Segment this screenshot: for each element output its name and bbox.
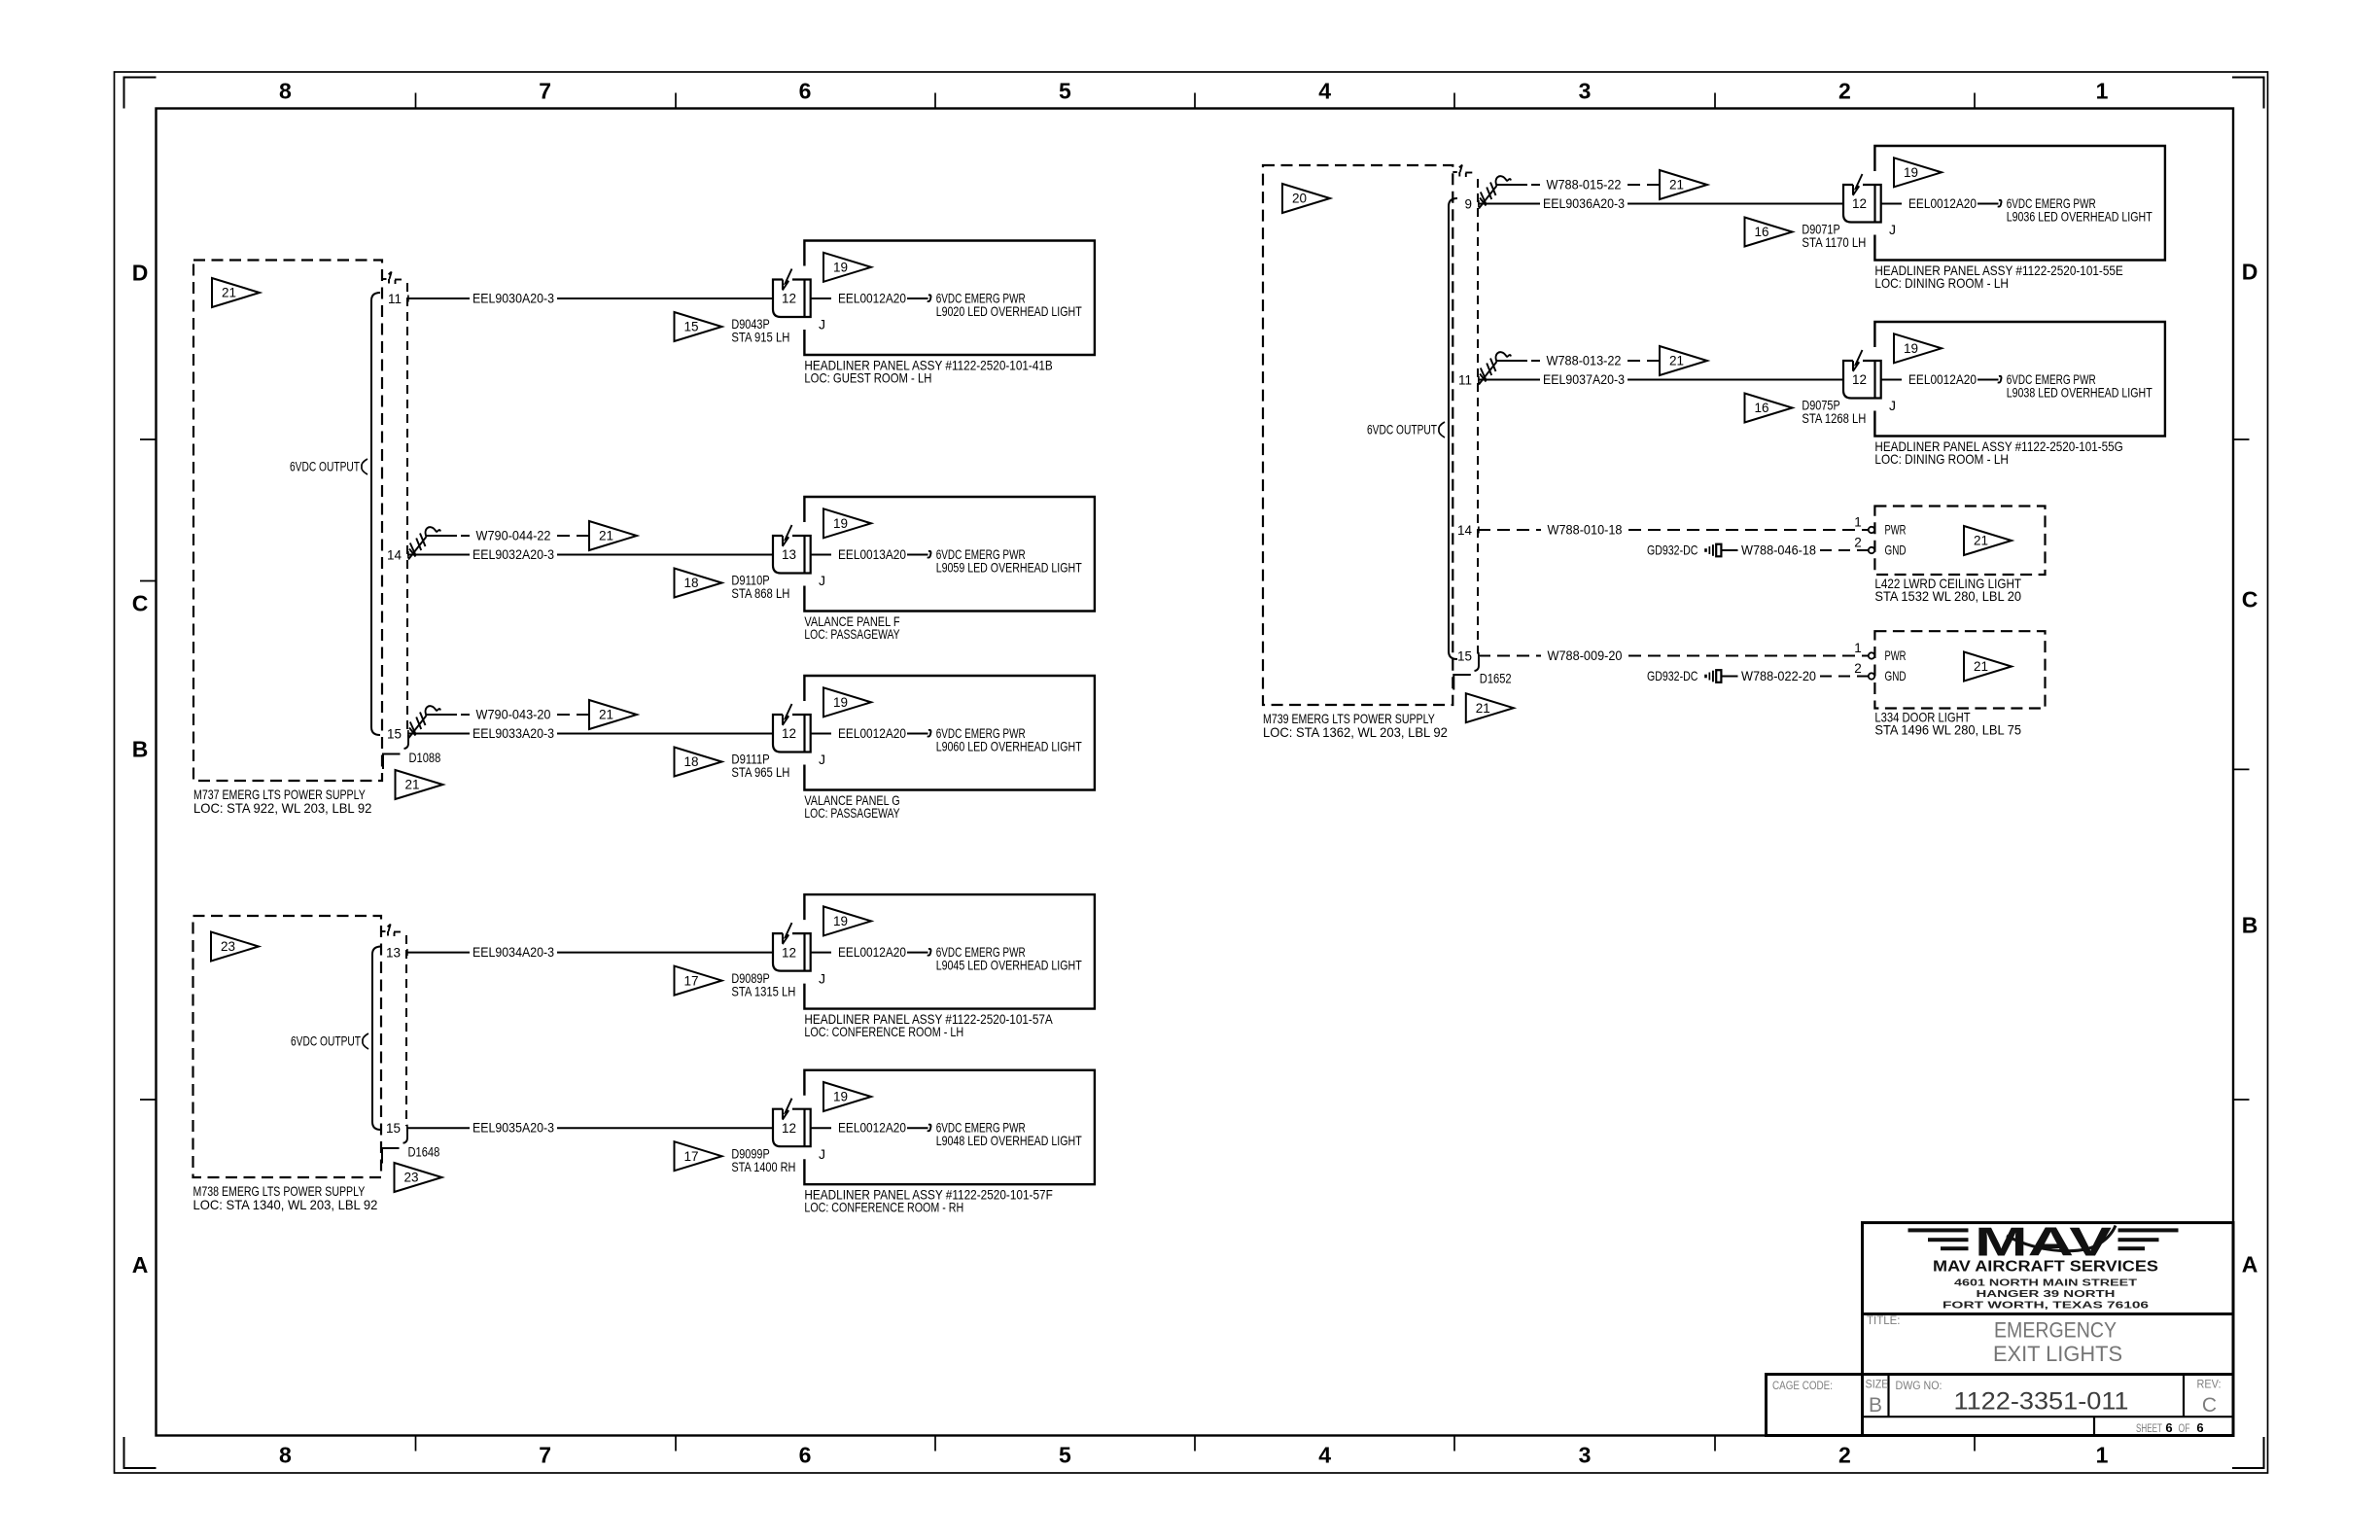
in-panel wire EEL0012A20 — [1881, 371, 1999, 387]
svg-text:L9045 LED OVERHEAD LIGHT: L9045 LED OVERHEAD LIGHT — [936, 957, 1082, 972]
svg-text:J: J — [1889, 222, 1896, 237]
svg-text:5: 5 — [1059, 1443, 1071, 1468]
svg-text:D: D — [2242, 259, 2258, 284]
svg-text:7: 7 — [539, 79, 551, 104]
MAV logo speed lines left — [1908, 1228, 1969, 1250]
flag 19 in panel VALANCE PANEL G — [823, 687, 871, 717]
wire W788-010-18 (dashed) — [1478, 521, 1869, 537]
connector bottom corner of M738 — [382, 1148, 400, 1164]
svg-text:8: 8 — [279, 1443, 292, 1468]
svg-text:PWR: PWR — [1885, 647, 1907, 663]
title block outline — [1863, 1223, 2234, 1436]
svg-text:J: J — [819, 970, 825, 986]
flag 21 on W788-013-22 — [1660, 346, 1707, 375]
pin 1 PWR of L422 lowered ceiling light — [1854, 515, 1906, 538]
zone tick bottom 7 — [1974, 1436, 1976, 1452]
svg-text:18: 18 — [683, 754, 698, 769]
svg-text:A: A — [132, 1252, 149, 1277]
svg-text:W788-009-20: W788-009-20 — [1548, 647, 1623, 663]
wire EEL9032A20-3 — [407, 546, 773, 562]
pin 14 of M739 — [1457, 523, 1479, 538]
panel box VALANCE PANEL G — [804, 676, 1095, 790]
svg-text:EEL9033A20-3: EEL9033A20-3 — [472, 725, 554, 741]
zone tick left 3 — [140, 1099, 157, 1101]
flag 18 at D9110P — [675, 569, 722, 598]
svg-text:8: 8 — [279, 79, 292, 104]
svg-text:LOC: CONFERENCE ROOM - LH: LOC: CONFERENCE ROOM - LH — [804, 1024, 963, 1039]
flag 21 below M739 — [1466, 693, 1514, 722]
svg-text:W788-015-22: W788-015-22 — [1547, 176, 1622, 192]
corner trim tick top-right — [2232, 78, 2264, 109]
svg-text:17: 17 — [683, 1149, 698, 1164]
panel box HEADLINER PANEL ASSY #1122-2520-101-57F — [804, 1070, 1095, 1185]
flag 18 at D9111P — [675, 748, 722, 777]
zone tick top 6 — [1714, 93, 1716, 109]
svg-text:4601 NORTH MAIN STREET: 4601 NORTH MAIN STREET — [1954, 1277, 2138, 1288]
svg-text:19: 19 — [833, 695, 848, 710]
svg-text:9: 9 — [1464, 197, 1472, 212]
connector boundary dashed line of M737 — [406, 283, 408, 732]
pin 14 of M737 — [387, 548, 408, 563]
svg-text:1: 1 — [2096, 1443, 2109, 1468]
svg-text:15: 15 — [387, 727, 402, 742]
svg-text:EEL9032A20-3: EEL9032A20-3 — [472, 546, 554, 562]
connector boundary dashed line of M738 — [405, 935, 407, 1126]
in-panel wire EEL0013A20 — [811, 546, 928, 562]
svg-text:LOC: GUEST ROOM - LH: LOC: GUEST ROOM - LH — [804, 370, 931, 386]
svg-text:L9048 LED OVERHEAD LIGHT: L9048 LED OVERHEAD LIGHT — [936, 1133, 1082, 1148]
svg-text:B: B — [132, 736, 149, 761]
MAV logo swoosh — [2007, 1226, 2116, 1251]
svg-text:LOC: CONFERENCE ROOM - RH: LOC: CONFERENCE ROOM - RH — [804, 1200, 963, 1215]
pin 9 of M739 — [1464, 197, 1478, 212]
shield wire W790-043-20 (dashed) — [427, 706, 590, 721]
svg-text:STA 1315 LH: STA 1315 LH — [731, 983, 795, 998]
flag 17 at D9099P — [675, 1141, 722, 1171]
shield wire W790-044-22 (dashed) — [427, 527, 590, 542]
pin 11 of M739 — [1458, 373, 1479, 388]
svg-text:LOC: STA 1340, WL 203, LBL 92: LOC: STA 1340, WL 203, LBL 92 — [193, 1197, 378, 1212]
output bracket of M737 — [371, 293, 380, 735]
wire W788-009-20 (dashed) — [1478, 647, 1869, 663]
svg-text:OF: OF — [2179, 1423, 2190, 1435]
wire EEL9037A20-3 — [1478, 371, 1843, 387]
svg-text:12: 12 — [782, 1121, 796, 1136]
svg-text:4: 4 — [1318, 79, 1331, 104]
svg-text:21: 21 — [1974, 534, 1988, 548]
connector boundary end hook of M737 — [404, 735, 409, 749]
connector boundary end hook of M739 — [1475, 657, 1480, 671]
flag 21 on W790-043-20 — [589, 700, 637, 729]
svg-text:W788-046-18: W788-046-18 — [1741, 542, 1816, 557]
pin 15 of M738 — [386, 1121, 407, 1136]
svg-text:18: 18 — [683, 576, 698, 590]
pin 15 of M739 — [1457, 649, 1479, 664]
svg-text:C: C — [132, 590, 149, 615]
svg-text:LOC: PASSAGEWAY: LOC: PASSAGEWAY — [804, 626, 900, 642]
svg-text:7: 7 — [539, 1443, 551, 1468]
svg-text:EEL9037A20-3: EEL9037A20-3 — [1543, 371, 1625, 387]
connector D9099P pin 12 — [773, 1099, 811, 1147]
svg-text:STA 1170 LH: STA 1170 LH — [1802, 234, 1866, 250]
in-panel wire EEL0012A20 — [811, 290, 928, 305]
connector boundary end hook of M738 — [403, 1130, 408, 1143]
svg-text:21: 21 — [1669, 354, 1684, 368]
power supply M737 dashed enclosure — [193, 261, 382, 782]
connector bottom corner of M739 — [1453, 675, 1471, 690]
svg-text:13: 13 — [386, 946, 401, 961]
wire EEL9033A20-3 — [407, 725, 773, 741]
svg-text:15: 15 — [386, 1121, 401, 1136]
svg-text:EEL0013A20: EEL0013A20 — [838, 546, 906, 562]
svg-text:MAV: MAV — [1975, 1219, 2112, 1265]
connector bottom corner of M737 — [383, 754, 401, 770]
svg-text:FORT WORTH, TEXAS 76106: FORT WORTH, TEXAS 76106 — [1942, 1300, 2149, 1312]
connector D9110P pin 13 — [773, 525, 811, 574]
zone tick left 2 — [140, 580, 157, 582]
connector D9043P pin 12 — [773, 269, 811, 318]
svg-text:1: 1 — [2096, 79, 2109, 104]
zone tick left 1 — [140, 438, 157, 440]
svg-text:SHEET: SHEET — [2136, 1423, 2162, 1435]
svg-text:6: 6 — [799, 1443, 812, 1468]
svg-text:14: 14 — [1457, 523, 1473, 538]
svg-text:21: 21 — [599, 708, 613, 722]
svg-text:EEL0012A20: EEL0012A20 — [838, 944, 906, 960]
wire EEL9034A20-3 — [406, 944, 773, 960]
L422 lowered ceiling light dashed enclosure — [1874, 507, 2045, 576]
cage code box — [1767, 1375, 1863, 1436]
output bracket of M739 — [1449, 198, 1457, 659]
svg-text:L9060 LED OVERHEAD LIGHT: L9060 LED OVERHEAD LIGHT — [936, 738, 1082, 753]
wire W788-022-20 — [1722, 668, 1869, 683]
svg-text:PWR: PWR — [1885, 521, 1907, 537]
svg-text:C: C — [2202, 1394, 2217, 1417]
panel box HEADLINER PANEL ASSY #1122-2520-101-41B — [804, 241, 1095, 356]
svg-text:15: 15 — [1457, 649, 1472, 664]
svg-text:12: 12 — [782, 945, 796, 960]
connector boundary dashed line of M739 — [1477, 179, 1479, 654]
flag 21 on W790-044-22 — [589, 521, 637, 550]
corner trim tick bottom-right — [2232, 1437, 2264, 1468]
svg-text:21: 21 — [1476, 701, 1490, 716]
twisted shield symbol at EEL9036A20-3 — [1479, 176, 1511, 208]
zone tick top 7 — [1974, 93, 1976, 109]
wire hook at EEL0013A20 — [927, 551, 931, 558]
zone tick bottom 1 — [415, 1436, 417, 1452]
wire EEL9030A20-3 — [407, 290, 773, 305]
svg-text:19: 19 — [1904, 165, 1918, 180]
svg-text:3: 3 — [1579, 79, 1592, 104]
pin 1 PWR of L334 door light — [1854, 641, 1906, 663]
svg-text:16: 16 — [1754, 401, 1768, 415]
svg-text:STA 1268 LH: STA 1268 LH — [1802, 410, 1866, 426]
svg-text:STA 1400 RH: STA 1400 RH — [731, 1159, 795, 1174]
inner drawing border — [157, 109, 2234, 1436]
connector D9111P pin 12 — [773, 704, 811, 752]
svg-text:W790-043-20: W790-043-20 — [476, 706, 551, 721]
zone tick right 3 — [2233, 1099, 2250, 1101]
flag 21 below M737 — [396, 770, 443, 799]
svg-text:12: 12 — [1852, 196, 1867, 211]
svg-text:19: 19 — [833, 1090, 848, 1104]
svg-text:STA 1496 WL 280, LBL 75: STA 1496 WL 280, LBL 75 — [1874, 722, 2021, 738]
brace for 6VDC OUTPUT of M738 — [363, 1033, 368, 1049]
SHEET 6 OF 6 — [2136, 1420, 2204, 1435]
power supply M739 dashed enclosure — [1263, 165, 1452, 705]
zone tick right 1 — [2233, 438, 2250, 440]
svg-text:J: J — [819, 752, 825, 767]
svg-text:L9036 LED OVERHEAD LIGHT: L9036 LED OVERHEAD LIGHT — [2007, 208, 2152, 224]
panel box HEADLINER PANEL ASSY #1122-2520-101-57A — [804, 894, 1095, 1009]
svg-text:EEL9035A20-3: EEL9035A20-3 — [472, 1120, 554, 1136]
svg-text:6VDC OUTPUT: 6VDC OUTPUT — [1367, 421, 1437, 437]
svg-text:EXIT LIGHTS: EXIT LIGHTS — [1993, 1342, 2122, 1366]
svg-text:HANGER 39 NORTH: HANGER 39 NORTH — [1977, 1288, 2116, 1300]
panel box HEADLINER PANEL ASSY #1122-2520-101-55G — [1874, 322, 2164, 437]
wire hook at EEL0012A20 — [927, 295, 931, 301]
svg-text:EEL9030A20-3: EEL9030A20-3 — [472, 290, 554, 305]
svg-text:2: 2 — [1838, 1443, 1851, 1468]
pin 15 of M737 — [387, 727, 408, 742]
svg-text:J: J — [819, 573, 825, 588]
svg-text:2: 2 — [1838, 79, 1851, 104]
twisted shield symbol at EEL9037A20-3 — [1479, 352, 1511, 384]
svg-text:GND: GND — [1885, 542, 1907, 557]
svg-text:B: B — [2242, 913, 2258, 938]
in-panel wire EEL0012A20 — [811, 725, 928, 741]
svg-text:16: 16 — [1754, 225, 1768, 239]
svg-text:3: 3 — [1579, 1443, 1592, 1468]
twisted shield symbol at EEL9033A20-3 — [408, 706, 440, 738]
svg-text:6VDC OUTPUT: 6VDC OUTPUT — [290, 458, 360, 473]
svg-text:1: 1 — [1854, 641, 1862, 655]
zone tick top 4 — [1194, 93, 1196, 109]
svg-text:EMERGENCY: EMERGENCY — [1994, 1318, 2117, 1343]
svg-text:12: 12 — [1852, 372, 1867, 387]
svg-text:12: 12 — [782, 292, 796, 306]
svg-text:2: 2 — [1854, 661, 1862, 676]
svg-text:L9020 LED OVERHEAD LIGHT: L9020 LED OVERHEAD LIGHT — [936, 303, 1082, 319]
connector top corner of M739 — [1452, 165, 1475, 180]
svg-text:D: D — [132, 260, 149, 285]
flag 19 in panel HEADLINER PANEL ASSY #1122-2520-101-55E — [1894, 157, 1942, 187]
svg-text:21: 21 — [1669, 178, 1684, 192]
svg-text:J: J — [819, 1146, 825, 1162]
wire W788-046-18 — [1722, 542, 1869, 557]
corner trim tick bottom-left — [124, 1437, 157, 1468]
wire EEL9035A20-3 — [406, 1120, 773, 1136]
connector D9071P pin 12 — [1843, 174, 1881, 223]
zone tick bottom 4 — [1194, 1436, 1196, 1452]
svg-text:J: J — [819, 317, 825, 332]
svg-text:L9059 LED OVERHEAD LIGHT: L9059 LED OVERHEAD LIGHT — [936, 559, 1082, 575]
flag 15 at D9043P — [675, 312, 722, 341]
svg-text:W788-010-18: W788-010-18 — [1548, 521, 1623, 537]
pin 11 of M737 — [388, 292, 408, 306]
svg-text:EEL9036A20-3: EEL9036A20-3 — [1543, 195, 1625, 211]
zone tick bottom 3 — [934, 1436, 936, 1452]
svg-text:LOC: DINING ROOM - LH: LOC: DINING ROOM - LH — [1874, 275, 2008, 291]
svg-text:14: 14 — [387, 548, 402, 563]
svg-text:A: A — [2242, 1251, 2258, 1277]
svg-text:EEL9034A20-3: EEL9034A20-3 — [472, 944, 554, 960]
flag 23 inside M738 — [211, 932, 259, 962]
svg-text:LOC: STA 1362, WL 203, LBL 92: LOC: STA 1362, WL 203, LBL 92 — [1263, 724, 1448, 740]
svg-text:1122-3351-011: 1122-3351-011 — [1954, 1388, 2129, 1416]
svg-text:CAGE CODE:: CAGE CODE: — [1772, 1381, 1833, 1392]
svg-text:B: B — [1869, 1394, 1882, 1417]
zone tick bottom 5 — [1453, 1436, 1455, 1452]
svg-text:4: 4 — [1318, 1443, 1331, 1468]
brace for 6VDC OUTPUT of M737 — [362, 459, 367, 474]
svg-text:GND: GND — [1885, 668, 1907, 683]
svg-text:6: 6 — [799, 79, 812, 104]
svg-text:EEL0012A20: EEL0012A20 — [838, 290, 906, 305]
svg-text:W788-022-20: W788-022-20 — [1741, 668, 1816, 683]
zone tick right 2 — [2233, 768, 2250, 770]
brace for 6VDC OUTPUT of M739 — [1439, 422, 1445, 437]
svg-text:SIZE: SIZE — [1866, 1380, 1889, 1391]
svg-text:15: 15 — [683, 320, 698, 334]
zone tick bottom 2 — [675, 1436, 677, 1452]
wire hook at EEL0012A20 — [927, 949, 931, 956]
svg-text:20: 20 — [1292, 192, 1307, 206]
svg-text:21: 21 — [404, 778, 419, 792]
svg-text:23: 23 — [403, 1171, 418, 1185]
svg-text:LOC: PASSAGEWAY: LOC: PASSAGEWAY — [804, 805, 900, 821]
svg-text:21: 21 — [599, 529, 613, 543]
svg-text:DWG NO:: DWG NO: — [1896, 1381, 1942, 1392]
svg-text:D1652: D1652 — [1480, 671, 1512, 686]
pin 2 GND of L334 door light — [1854, 661, 1906, 683]
shield termination symbol L422 lowered ceiling light — [1704, 544, 1721, 557]
svg-text:STA 1532 WL 280, LBL 20: STA 1532 WL 280, LBL 20 — [1874, 588, 2021, 604]
svg-text:6: 6 — [2196, 1420, 2203, 1435]
L334 door light dashed enclosure — [1874, 631, 2045, 708]
wire hook at EEL0012A20 — [927, 1125, 931, 1132]
svg-text:19: 19 — [1904, 341, 1918, 356]
svg-text:11: 11 — [388, 292, 402, 306]
svg-text:6VDC OUTPUT: 6VDC OUTPUT — [291, 1032, 361, 1048]
svg-text:W788-013-22: W788-013-22 — [1547, 352, 1622, 367]
in-panel wire EEL0012A20 — [1881, 195, 1999, 211]
panel box VALANCE PANEL F — [804, 497, 1095, 612]
zone tick top 3 — [934, 93, 936, 109]
corner trim tick top-left — [124, 78, 157, 109]
svg-text:12: 12 — [782, 726, 796, 741]
svg-text:W790-044-22: W790-044-22 — [476, 527, 551, 542]
power supply M738 dashed enclosure — [193, 916, 382, 1177]
flag 23 below M738 — [395, 1163, 442, 1192]
svg-text:17: 17 — [683, 973, 698, 988]
svg-text:GD932-DC: GD932-DC — [1647, 542, 1697, 557]
svg-text:6: 6 — [2165, 1420, 2172, 1435]
svg-text:19: 19 — [833, 516, 848, 531]
flag 21 in L334 door light — [1964, 652, 2012, 682]
pin 13 of M738 — [386, 946, 407, 961]
wire hook at EEL0012A20 — [1998, 376, 2002, 383]
flag 16 at D9075P — [1745, 394, 1793, 423]
MAV logo speed lines right — [2118, 1228, 2179, 1250]
svg-text:EEL0012A20: EEL0012A20 — [838, 1120, 906, 1136]
svg-text:EEL0012A20: EEL0012A20 — [1908, 195, 1977, 211]
pin 2 GND of L422 lowered ceiling light — [1854, 536, 1906, 558]
svg-text:11: 11 — [1458, 373, 1472, 388]
svg-text:MAV AIRCRAFT SERVICES: MAV AIRCRAFT SERVICES — [1933, 1259, 2158, 1276]
flag 19 in panel HEADLINER PANEL ASSY #1122-2520-101-57F — [823, 1082, 871, 1111]
svg-text:LOC: STA 922, WL 203, LBL 92: LOC: STA 922, WL 203, LBL 92 — [193, 800, 372, 816]
shield termination symbol L334 door light — [1704, 670, 1721, 682]
svg-text:21: 21 — [1974, 659, 1988, 674]
svg-text:J: J — [1889, 398, 1896, 413]
svg-text:EEL0012A20: EEL0012A20 — [1908, 371, 1977, 387]
connector D9089P pin 12 — [773, 923, 811, 971]
svg-text:STA 915 LH: STA 915 LH — [731, 330, 789, 345]
in-panel wire EEL0012A20 — [811, 1120, 928, 1136]
wire hook at EEL0012A20 — [1998, 200, 2002, 207]
svg-text:REV:: REV: — [2197, 1380, 2222, 1391]
flag 21 on W788-015-22 — [1660, 170, 1707, 199]
flag 19 in panel HEADLINER PANEL ASSY #1122-2520-101-41B — [823, 253, 871, 282]
panel box HEADLINER PANEL ASSY #1122-2520-101-55E — [1874, 146, 2164, 261]
zone tick top 2 — [675, 93, 677, 109]
flag 16 at D9071P — [1745, 218, 1793, 247]
flag 20 inside M739 — [1282, 184, 1330, 213]
svg-text:2: 2 — [1854, 536, 1862, 550]
zone tick top 5 — [1453, 93, 1455, 109]
svg-text:13: 13 — [782, 547, 796, 562]
svg-text:GD932-DC: GD932-DC — [1647, 668, 1697, 683]
svg-text:STA 868 LH: STA 868 LH — [731, 585, 789, 601]
output bracket of M738 — [372, 947, 381, 1131]
svg-text:19: 19 — [833, 261, 848, 275]
connector top corner of M737 — [382, 272, 404, 287]
flag 19 in panel VALANCE PANEL F — [823, 508, 871, 538]
shield wire W788-015-22 (dashed) — [1497, 176, 1661, 192]
wire hook at EEL0012A20 — [927, 730, 931, 737]
flag 21 in L422 lowered ceiling light — [1964, 526, 2012, 555]
flag 21 inside M737 — [212, 278, 260, 307]
svg-text:LOC: DINING ROOM - LH: LOC: DINING ROOM - LH — [1874, 451, 2008, 467]
svg-text:23: 23 — [221, 939, 235, 954]
svg-text:TITLE:: TITLE: — [1867, 1315, 1901, 1327]
zone tick bottom 6 — [1714, 1436, 1716, 1452]
connector D9075P pin 12 — [1843, 350, 1881, 399]
svg-text:21: 21 — [222, 286, 236, 300]
wire EEL9036A20-3 — [1478, 195, 1843, 211]
shield wire W788-013-22 (dashed) — [1497, 352, 1661, 367]
svg-text:EEL0012A20: EEL0012A20 — [838, 725, 906, 741]
flag 17 at D9089P — [675, 966, 722, 996]
svg-text:STA 965 LH: STA 965 LH — [731, 764, 789, 780]
in-panel wire EEL0012A20 — [811, 944, 928, 960]
svg-text:19: 19 — [833, 914, 848, 928]
flag 19 in panel HEADLINER PANEL ASSY #1122-2520-101-55G — [1894, 333, 1942, 363]
svg-text:C: C — [2242, 586, 2258, 612]
zone tick top 1 — [415, 93, 417, 109]
svg-text:1: 1 — [1854, 515, 1862, 530]
twisted shield symbol at EEL9032A20-3 — [408, 527, 440, 559]
svg-text:D1088: D1088 — [409, 750, 441, 765]
svg-text:L9038 LED OVERHEAD LIGHT: L9038 LED OVERHEAD LIGHT — [2007, 384, 2152, 400]
svg-text:D1648: D1648 — [408, 1144, 440, 1160]
connector top corner of M738 — [381, 925, 403, 939]
flag 19 in panel HEADLINER PANEL ASSY #1122-2520-101-57A — [823, 906, 871, 935]
svg-text:5: 5 — [1059, 79, 1071, 104]
